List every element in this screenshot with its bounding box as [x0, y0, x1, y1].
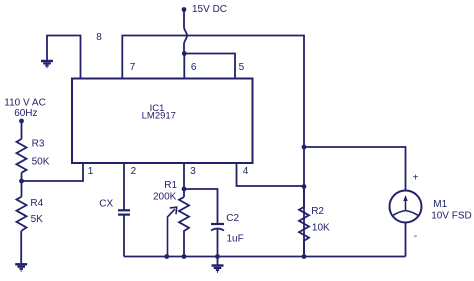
wire top rail pin7 to right rail — [122, 36, 304, 257]
C2 value 1uF — [227, 234, 244, 245]
svg-text:200K: 200K — [153, 192, 177, 203]
wire C2 to bottom rail — [217, 229, 219, 257]
pin 2 label — [131, 166, 137, 177]
R2 value 10K — [312, 223, 330, 234]
60Hz label — [14, 108, 37, 119]
capacitor C2 — [211, 224, 224, 231]
svg-text:5: 5 — [239, 62, 245, 73]
ground G1 (pin 8 / top-left) — [41, 61, 53, 68]
wire junction to R4 — [21, 181, 23, 197]
svg-text:110 V AC: 110 V AC — [4, 98, 46, 109]
wire junction to pin 5 — [184, 54, 235, 79]
M1 value 10V FSD — [431, 211, 472, 222]
node junction pin6 feed — [182, 51, 187, 56]
svg-text:CX: CX — [99, 199, 113, 210]
R3 value 50K — [32, 157, 50, 168]
svg-text:10K: 10K — [312, 223, 330, 234]
meter M1 body — [390, 191, 422, 223]
svg-text:6: 6 — [191, 62, 197, 73]
svg-text:10V FSD: 10V FSD — [431, 211, 472, 222]
node C2 / ground junction — [215, 254, 220, 259]
pin 4 label — [243, 166, 249, 177]
R1 label — [164, 180, 177, 191]
pin 5 label — [239, 62, 245, 73]
resistor R2 — [299, 187, 309, 257]
wire top-left ground branch to pin 8 — [47, 36, 81, 79]
R4 value 5K — [31, 214, 44, 225]
wire junction to pin 6 — [183, 54, 185, 79]
svg-text:5K: 5K — [31, 214, 44, 225]
node R3/R4 divider junction — [19, 179, 24, 184]
svg-text:R2: R2 — [311, 206, 324, 217]
svg-text:-: - — [414, 231, 417, 242]
svg-text:15V DC: 15V DC — [192, 4, 227, 15]
pin 6 label — [191, 62, 197, 73]
M1 label — [433, 199, 447, 210]
ground G3 (bottom rail) — [212, 257, 224, 273]
svg-text:M1: M1 — [433, 199, 447, 210]
resistor R1 potentiometer — [179, 189, 189, 257]
IC1 reference label — [150, 103, 165, 114]
svg-text:8: 8 — [96, 32, 102, 43]
wire R3 to junction — [21, 173, 23, 181]
wire pin 4 to right rail — [237, 163, 305, 186]
node right-rail meter tap — [302, 145, 307, 150]
svg-text:7: 7 — [130, 62, 136, 73]
svg-text:C2: C2 — [226, 213, 239, 224]
pin 3 label — [190, 166, 196, 177]
node R1 bottom to bottom rail — [182, 254, 187, 259]
R2 label — [311, 206, 324, 217]
wire meter minus to bottom rail — [405, 222, 407, 257]
node pin4 / R2 junction — [302, 184, 307, 189]
svg-text:60Hz: 60Hz — [14, 108, 37, 119]
wire junction to pin 1 — [22, 163, 84, 181]
110 V AC label — [4, 98, 46, 109]
pin 1 label — [88, 166, 94, 177]
ground G2 (R4) — [15, 264, 27, 271]
meter minus label — [414, 231, 417, 242]
node 110V AC terminal — [19, 119, 24, 124]
wire 15V feed with hop over top rail — [184, 10, 187, 54]
potentiometer wiper arrow — [168, 207, 177, 256]
svg-text:1uF: 1uF — [227, 234, 244, 245]
R3 label — [32, 139, 45, 150]
svg-text:50K: 50K — [32, 157, 50, 168]
wire CX to bottom rail — [123, 215, 125, 257]
svg-text:R1: R1 — [164, 180, 177, 191]
wire AC terminal to R3 — [21, 121, 23, 139]
IC1 value label LM2917 — [142, 111, 176, 122]
node wiper to bottom rail — [164, 254, 169, 259]
15V DC label — [192, 4, 227, 15]
wire pin 3 down to node — [183, 163, 185, 189]
CX label — [99, 199, 113, 210]
svg-text:1: 1 — [88, 166, 94, 177]
node pin3 / R1 / C2 — [182, 187, 187, 192]
wire right rail to meter plus — [304, 147, 406, 190]
pin 7 label — [130, 62, 136, 73]
svg-text:+: + — [413, 173, 419, 184]
svg-text:R3: R3 — [32, 139, 45, 150]
svg-text:R4: R4 — [30, 198, 43, 209]
R4 label — [30, 198, 43, 209]
wire node to C2 branch — [184, 189, 218, 223]
pin 8 label — [96, 32, 102, 43]
svg-text:2: 2 — [131, 166, 137, 177]
wire pin 2 to bottom rail with capacitor CX — [123, 163, 125, 210]
capacitor CX — [118, 210, 130, 214]
op-amp IC U1 LM2917 body — [72, 79, 253, 164]
C2 label — [226, 213, 239, 224]
node R2 bottom junction — [302, 254, 307, 259]
bottom rail wire — [124, 256, 406, 258]
svg-text:LM2917: LM2917 — [142, 111, 176, 122]
resistor R3 — [17, 139, 27, 173]
svg-text:3: 3 — [190, 166, 196, 177]
wire R4 to ground — [20, 231, 22, 264]
resistor R4 — [17, 197, 27, 231]
svg-text:4: 4 — [243, 166, 249, 177]
node 15V supply terminal — [182, 7, 187, 12]
R1 value 200K — [153, 192, 177, 203]
meter plus label — [413, 173, 419, 184]
